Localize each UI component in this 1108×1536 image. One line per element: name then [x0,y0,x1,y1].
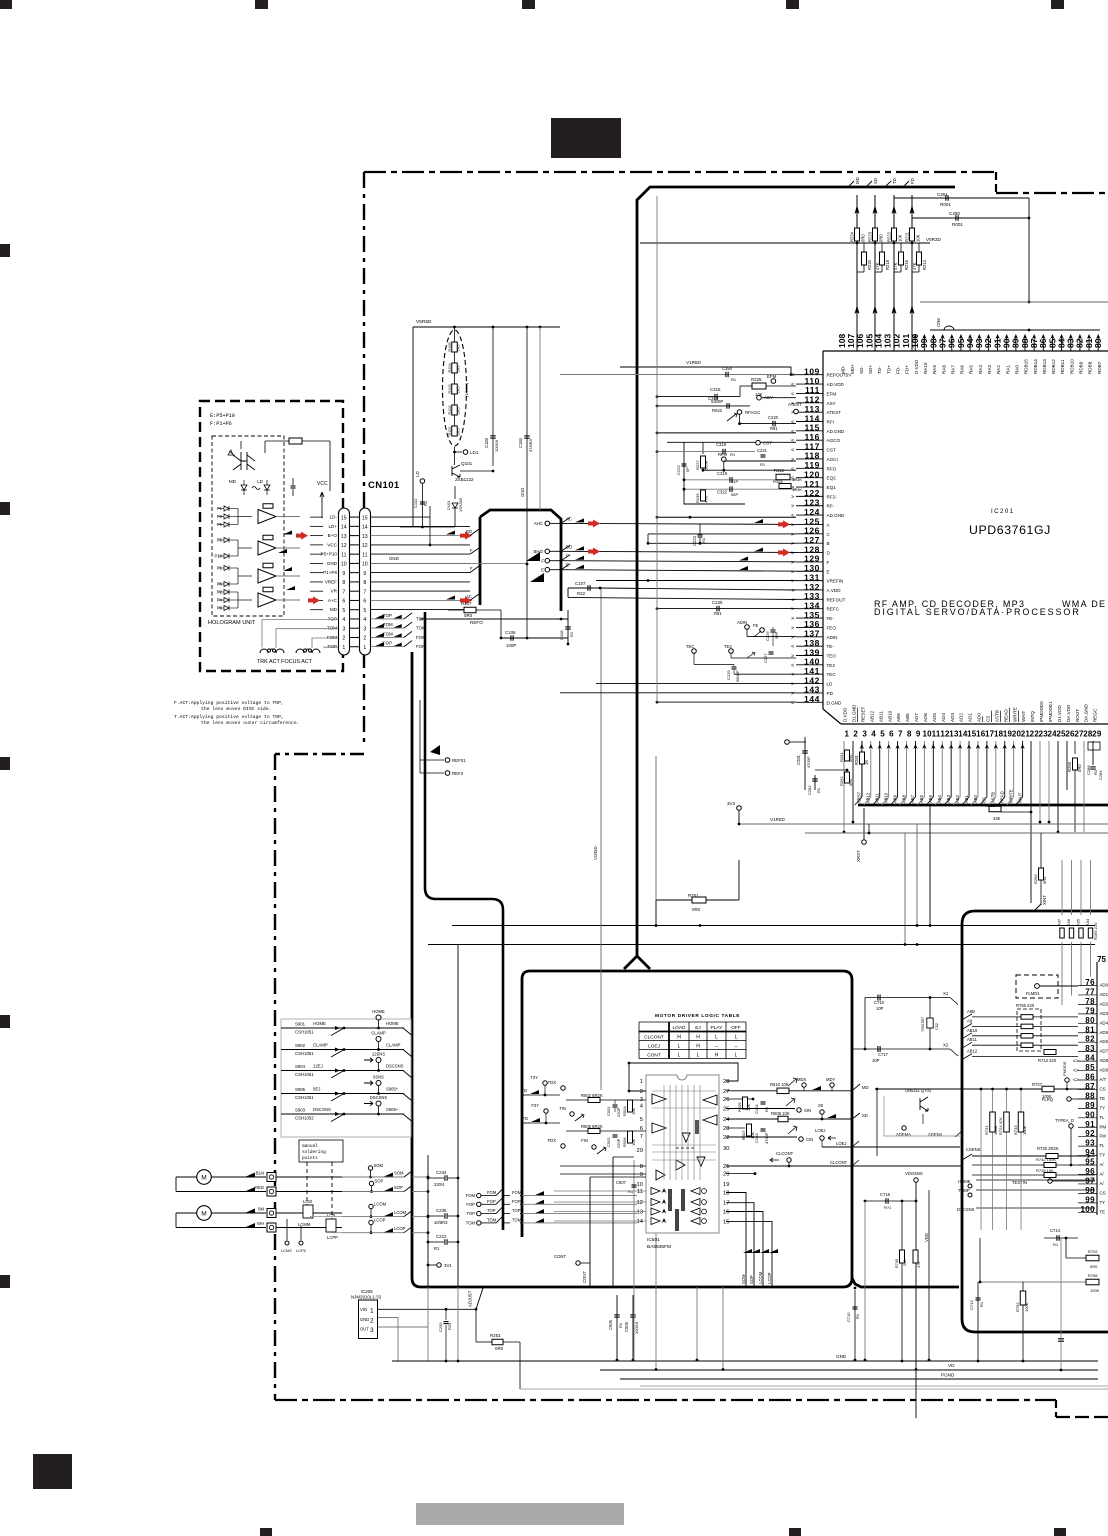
svg-text:LOEJ: LOEJ [815,1128,825,1133]
svg-text:3: 3 [862,730,867,739]
svg-text:WH: WH [257,1221,264,1226]
svg-text:R1: R1 [855,1313,860,1319]
svg-text:TD: TD [521,1088,527,1093]
svg-text:13: 13 [637,1210,643,1216]
svg-text:FDX: FDX [548,1138,557,1143]
svg-text:CSH1051: CSH1051 [295,1030,314,1035]
svg-text:R225: R225 [751,377,762,382]
svg-text:C251: C251 [937,192,948,197]
svg-text:10P: 10P [876,1006,884,1011]
svg-text:V5R3D: V5R3D [926,237,941,242]
svg-text:A35: A35 [1076,918,1081,926]
svg-text:AB9: AB9 [896,713,901,722]
svg-text:AB7: AB7 [910,794,915,803]
svg-text:GND: GND [520,488,525,497]
svg-text:HOME: HOME [313,1021,326,1026]
svg-text:0EJ: 0EJ [313,1087,320,1092]
svg-text:220P: 220P [616,1138,621,1148]
svg-text:VIN: VIN [360,1307,367,1312]
svg-text:0R0: 0R0 [1077,764,1082,772]
svg-text:manual: manual [302,1144,318,1149]
svg-text:FE-: FE- [827,616,835,621]
svg-text:VD: VD [948,1363,955,1368]
svg-text:GND: GND [836,1354,847,1359]
svg-text:C710: C710 [874,1000,885,1005]
svg-text:56P: 56P [731,492,738,497]
svg-text:ATEST: ATEST [788,402,802,407]
svg-text:REF2: REF2 [452,771,464,776]
svg-text:VREFIN: VREFIN [827,579,844,584]
svg-text:GND: GND [360,1317,369,1322]
svg-text:5: 5 [363,608,366,614]
svg-text:R1: R1 [701,537,706,543]
svg-text:AD.GND: AD.GND [827,513,846,518]
svg-text:CN101: CN101 [368,480,400,491]
svg-text:E:P5+P10: E:P5+P10 [210,413,235,419]
svg-text:12SNS: 12SNS [372,1052,385,1057]
svg-text:0SNS: 0SNS [373,1075,384,1080]
svg-text:FD: FD [522,1116,528,1121]
svg-text:L: L [697,1053,700,1059]
svg-text:TE2: TE2 [827,663,836,668]
svg-text:3V2: 3V2 [727,801,736,806]
svg-text:READ: READ [1000,791,1005,803]
svg-text:PGND: PGND [941,1373,955,1378]
svg-text:C284: C284 [1098,770,1103,780]
svg-text:3: 3 [363,626,366,632]
svg-text:SOM: SOM [394,1171,404,1176]
svg-text:TD+: TD+ [886,365,891,374]
svg-text:LCOM: LCOM [394,1210,407,1215]
svg-text:S905: S905 [295,1087,306,1092]
svg-text:47K: 47K [917,1261,921,1268]
svg-text:<: < [791,588,794,594]
svg-text:13: 13 [362,534,368,540]
svg-text:R25: R25 [447,1322,452,1330]
svg-text:<: < [791,429,794,435]
svg-text:XRST: XRST [856,850,861,862]
svg-text:R261: R261 [839,752,844,762]
svg-text:TESTIN: TESTIN [1012,1180,1027,1185]
svg-text:LCMM: LCMM [298,1222,311,1227]
svg-text:7: 7 [640,1134,643,1140]
svg-text:A.VDD: A.VDD [827,588,842,593]
svg-text:R220: R220 [867,259,872,270]
svg-text:FOM: FOM [416,635,426,640]
svg-text:<>: <> [1073,1078,1079,1084]
svg-text:DA.GND: DA.GND [1084,703,1089,722]
svg-text:FD-: FD- [896,366,901,374]
svg-text:AB11: AB11 [967,1037,978,1042]
svg-text:TEMP: TEMP [958,1188,970,1193]
svg-text:AD.GND: AD.GND [827,429,846,434]
svg-text:>: > [791,691,794,697]
svg-text:4: 4 [871,730,876,739]
svg-text:C507: C507 [616,1180,627,1185]
svg-text:CSH1052: CSH1052 [295,1116,314,1121]
svg-text:CONT: CONT [554,1254,566,1259]
svg-text:R281: R281 [854,754,859,765]
svg-text:C350: C350 [722,366,733,371]
svg-text:0R0: 0R0 [879,234,884,242]
svg-text:R1: R1 [979,1301,984,1307]
svg-text:13: 13 [341,534,347,540]
svg-text:SD+: SD+ [868,365,873,374]
svg-text:H: H [696,1035,700,1041]
svg-text:>: > [791,522,794,528]
svg-text:X2: X2 [943,1043,949,1048]
svg-text:R101: R101 [448,426,452,435]
svg-text:R218: R218 [885,259,890,270]
svg-text:--: -- [734,1044,738,1050]
svg-text:RF2-: RF2- [827,494,838,499]
svg-text:CONT: CONT [582,1271,587,1283]
svg-text:VDD: VDD [924,1233,929,1242]
svg-text:C225: C225 [712,600,723,605]
svg-text:FL: FL [1100,1115,1106,1120]
svg-text:FOP: FOP [466,1202,475,1207]
svg-text:FEO: FEO [827,625,837,630]
svg-text:AGCI: AGCI [827,457,838,462]
svg-text:LD: LD [415,471,420,477]
svg-text:<: < [791,420,794,426]
svg-text:TOP: TOP [466,1211,475,1216]
svg-text:F.ACT:Applying positive voltag: F.ACT:Applying positive voltage to FOP, [174,700,284,706]
svg-text:C184: C184 [518,437,523,448]
svg-text:R282: R282 [985,803,996,808]
svg-text:9: 9 [342,571,345,577]
svg-text:R103: R103 [448,384,452,393]
svg-text:C52: C52 [935,1023,939,1030]
svg-text:AC: AC [566,516,572,521]
svg-text:EQ2: EQ2 [827,476,837,481]
svg-text:12EJ: 12EJ [313,1064,323,1069]
svg-text:L: L [735,1053,738,1059]
svg-text:R504: R504 [622,1106,627,1116]
svg-text:CST: CST [827,448,836,453]
svg-text:LCOP: LCOP [767,1272,772,1284]
svg-text:FE: FE [753,623,759,628]
svg-text:ASY: ASY [827,401,836,406]
svg-text:F: F [566,554,569,559]
svg-text:>: > [791,607,794,613]
svg-text:AB10: AB10 [967,1028,978,1033]
svg-text:CLCONT: CLCONT [776,1151,794,1156]
svg-text:RED: RED [255,1185,264,1190]
svg-text:AD1: AD1 [1100,992,1108,997]
svg-text:AB12: AB12 [866,792,871,803]
svg-text:R726 10K: R726 10K [1036,1168,1054,1173]
svg-text:A+C: A+C [328,598,338,603]
svg-text:M: M [201,1175,206,1182]
svg-text:SIN: SIN [804,1108,811,1113]
svg-text:Y551557: Y551557 [921,1017,925,1032]
svg-text:AB9: AB9 [892,794,897,803]
svg-text:BO: BO [466,529,473,534]
svg-text:14: 14 [362,525,368,531]
svg-text:LD+: LD+ [328,524,337,529]
svg-text:TOM: TOM [416,626,426,631]
svg-text:RA1: RA1 [1005,365,1010,374]
svg-text:XINT: XINT [1042,895,1047,905]
svg-text:AD4: AD4 [941,713,946,722]
svg-text:TOP: TOP [512,1208,521,1213]
svg-text:LD: LD [257,479,264,484]
svg-text:TEC: TEC [827,672,837,677]
svg-text:AD.VDD: AD.VDD [827,382,845,387]
svg-text:0R0: 0R0 [861,234,866,242]
svg-text:<: < [791,513,794,519]
svg-text:ATEST: ATEST [827,410,842,415]
svg-text:SOP: SOP [749,1275,754,1284]
svg-text:27: 27 [723,1089,729,1095]
svg-text:REPOUT5V: REPOUT5V [827,373,853,378]
svg-text:C221: C221 [757,448,768,453]
svg-text:1R5: 1R5 [457,429,461,436]
svg-text:A9: A9 [967,1018,973,1023]
svg-text:AB2: AB2 [955,794,960,803]
svg-text:C714: C714 [1050,1228,1061,1233]
svg-text:RA9: RA9 [932,365,937,374]
svg-text:0R0: 0R0 [1090,1264,1098,1269]
svg-text:AB8: AB8 [901,794,906,803]
svg-text:144: 144 [804,694,820,704]
svg-text:R1: R1 [628,1189,634,1194]
svg-text:22: 22 [723,1135,729,1141]
svg-text:MDY: MDY [826,1077,836,1082]
svg-text:9M: 9M [258,1207,264,1212]
svg-text:CS: CS [985,716,990,722]
svg-text:ASTB: ASTB [994,710,999,722]
svg-text:VCC: VCC [317,481,328,487]
svg-text:21: 21 [723,1164,729,1170]
svg-text:100K: 100K [1024,1302,1029,1312]
svg-text:CN6: CN6 [936,318,941,327]
svg-text:19: 19 [723,1182,729,1188]
svg-text:IPMODE0: IPMODE0 [1039,701,1044,722]
svg-text:RDB14: RDB14 [1033,359,1038,374]
svg-text:MDX: MDX [797,1077,807,1082]
svg-text:C715: C715 [846,1312,851,1322]
svg-text:C281: C281 [796,754,801,765]
svg-text:OUT: OUT [360,1327,369,1332]
svg-text:X1: X1 [943,991,949,996]
svg-text:L: L [678,1044,681,1050]
svg-text:D.GND: D.GND [827,700,842,705]
svg-text:>: > [791,494,794,500]
svg-text:SD: SD [862,1113,868,1118]
svg-text:10K: 10K [631,1108,636,1115]
svg-text:>: > [791,625,794,631]
svg-text:UPD63761GJ: UPD63761GJ [969,523,1051,537]
svg-text:AD2: AD2 [959,713,964,722]
svg-text:R702: R702 [1088,1249,1098,1254]
svg-text:NJM2910L1-33: NJM2910L1-33 [351,1295,382,1300]
svg-text:AB11: AB11 [875,792,880,803]
svg-text:2: 2 [370,1318,374,1325]
svg-text:IPMODE1: IPMODE1 [1048,701,1053,722]
svg-text:<: < [791,597,794,603]
svg-text:FOM: FOM [512,1190,522,1195]
svg-text:AC: AC [466,594,472,599]
svg-text:DA.VDD: DA.VDD [1066,704,1071,722]
svg-text:C229: C229 [726,670,731,680]
svg-text:8: 8 [363,580,366,586]
svg-text:AD1: AD1 [968,713,973,722]
svg-text:C250: C250 [949,211,960,216]
svg-text:TOM: TOM [487,1217,497,1222]
svg-text:LCM2: LCM2 [281,1248,292,1253]
svg-text:R1: R1 [569,631,574,637]
svg-text:V1R5D: V1R5D [593,847,598,861]
svg-text:S903: S903 [295,1108,306,1113]
svg-text:RDB7: RDB7 [1097,361,1102,374]
svg-text:R265: R265 [1067,761,1072,772]
svg-text:8: 8 [640,1164,643,1170]
svg-text:the lens moves DISC side.: the lens moves DISC side. [201,706,271,712]
svg-text:LCOP: LCOP [394,1226,406,1231]
svg-text:R742 100K: R742 100K [1036,1157,1056,1162]
svg-text:SOP: SOP [375,1179,384,1184]
svg-text:FOP: FOP [512,1199,521,1204]
svg-text:15: 15 [341,515,347,521]
svg-text:AD9: AD9 [1100,1068,1108,1073]
svg-text:<>: <> [1073,1059,1079,1065]
svg-text:BA5835FM: BA5835FM [647,1244,671,1250]
svg-text:TE-: TE- [827,644,835,649]
svg-text:R725 2R2K: R725 2R2K [1037,1146,1059,1151]
svg-text:C713: C713 [969,1300,974,1310]
svg-text:B+O: B+O [328,533,338,538]
svg-text:FOM: FOM [466,1193,476,1198]
svg-text:TDX: TDX [548,1080,557,1085]
svg-text:R1: R1 [618,1322,623,1328]
svg-text:RDB11: RDB11 [1060,359,1065,374]
svg-text:RA7: RA7 [950,365,955,374]
svg-text:EFM: EFM [827,391,837,396]
svg-text:P1+P6: P1+P6 [323,570,337,575]
svg-text:AB10: AB10 [887,710,892,722]
svg-text:25: 25 [723,1107,729,1113]
svg-text:47/6R3: 47/6R3 [528,438,533,452]
svg-text:REFOUT: REFOUT [827,597,846,602]
svg-text:LD1: LD1 [470,450,479,455]
svg-text:MD: MD [855,177,860,184]
svg-text:AB12: AB12 [967,1049,978,1054]
svg-text:RDB10: RDB10 [1069,359,1074,374]
svg-text:AB5: AB5 [928,794,933,803]
svg-text:R022: R022 [712,408,723,413]
svg-text:R1: R1 [730,452,736,457]
svg-text:C315: C315 [710,387,721,392]
svg-text:A34: A34 [1085,918,1090,926]
svg-text:CONT: CONT [647,1053,661,1059]
svg-text:R001: R001 [940,202,951,207]
svg-text:7: 7 [342,589,345,595]
svg-text:V1R5D: V1R5D [686,360,701,365]
svg-text:2: 2 [342,636,345,642]
svg-text:CSH1051: CSH1051 [295,1051,314,1056]
svg-text:AB10: AB10 [883,792,888,803]
svg-text:R104: R104 [448,363,452,372]
svg-text:6: 6 [363,599,366,605]
svg-text:C212: C212 [436,1234,447,1239]
svg-text:CLCONT: CLCONT [644,1035,664,1041]
svg-text:HOME: HOME [386,1021,399,1026]
svg-text:C319: C319 [717,471,728,476]
svg-text:2: 2 [853,730,858,739]
svg-text:S902: S902 [295,1043,306,1048]
svg-text:S901: S901 [295,1022,306,1027]
svg-text:16: 16 [723,1210,729,1216]
svg-text:TYPEA_D: TYPEA_D [1055,1118,1074,1123]
svg-text:>: > [791,616,794,622]
svg-text:MOTOR DRIVER LOGIC TABLE: MOTOR DRIVER LOGIC TABLE [655,1013,740,1019]
svg-text:28: 28 [723,1079,729,1085]
svg-text:R222: R222 [887,231,892,242]
svg-text:R1: R1 [816,787,821,793]
svg-text:C716: C716 [880,1192,891,1197]
svg-text:220P: 220P [616,1107,621,1117]
svg-text:R733: R733 [1013,1125,1018,1135]
svg-text:LCM: LCM [303,1199,312,1204]
svg-text:AD7: AD7 [1100,1049,1108,1054]
svg-text:REGC: REGC [1093,708,1098,722]
svg-text:SD: SD [873,178,878,184]
svg-text:17: 17 [723,1201,729,1207]
svg-text:AD5: AD5 [932,713,937,722]
svg-text:R235: R235 [695,493,700,503]
svg-text:6800P: 6800P [735,670,740,682]
svg-text:AD2: AD2 [1100,1001,1108,1006]
svg-text:1R5: 1R5 [457,345,461,352]
svg-text:R221: R221 [905,231,910,242]
svg-text:1: 1 [342,645,345,651]
svg-text:1K: 1K [864,760,869,765]
svg-text:75: 75 [1097,955,1106,964]
svg-text:F: F [470,566,473,571]
svg-text:DSCSNS: DSCSNS [386,1064,404,1069]
svg-text:LCP: LCP [327,1213,335,1218]
svg-text:DSCSNS: DSCSNS [313,1107,331,1112]
svg-text:<: < [791,700,794,706]
svg-text:CLAMP: CLAMP [386,1043,401,1048]
svg-text:30: 30 [723,1146,729,1152]
svg-text:GND: GND [327,561,338,566]
svg-text:F: F [827,560,830,565]
svg-text:WAIT: WAIT [1017,792,1022,803]
svg-text:A/T: A/T [1100,1077,1107,1082]
svg-text:AD6: AD6 [923,713,928,722]
svg-text:AD8: AD8 [1100,1058,1108,1063]
svg-text:ROUT: ROUT [1075,709,1080,722]
svg-text:2: 2 [363,636,366,642]
svg-text:READ: READ [1003,709,1008,722]
svg-text:CIN: CIN [806,1137,813,1142]
svg-text:FLRQ: FLRQ [1042,1097,1054,1102]
svg-text:C501: C501 [606,1106,611,1116]
svg-text:10P: 10P [872,1058,880,1063]
svg-text:AD0: AD0 [1100,983,1108,988]
svg-text:R713 220: R713 220 [1038,1058,1057,1063]
svg-text:S0: S0 [818,1103,824,1108]
svg-text:VR: VR [331,589,338,594]
svg-text:R216: R216 [904,259,909,270]
svg-text:RF-: RF- [827,504,835,509]
svg-text:LOEJ: LOEJ [836,1141,846,1146]
svg-text:R1: R1 [760,462,766,467]
svg-text:F: F [470,548,473,553]
